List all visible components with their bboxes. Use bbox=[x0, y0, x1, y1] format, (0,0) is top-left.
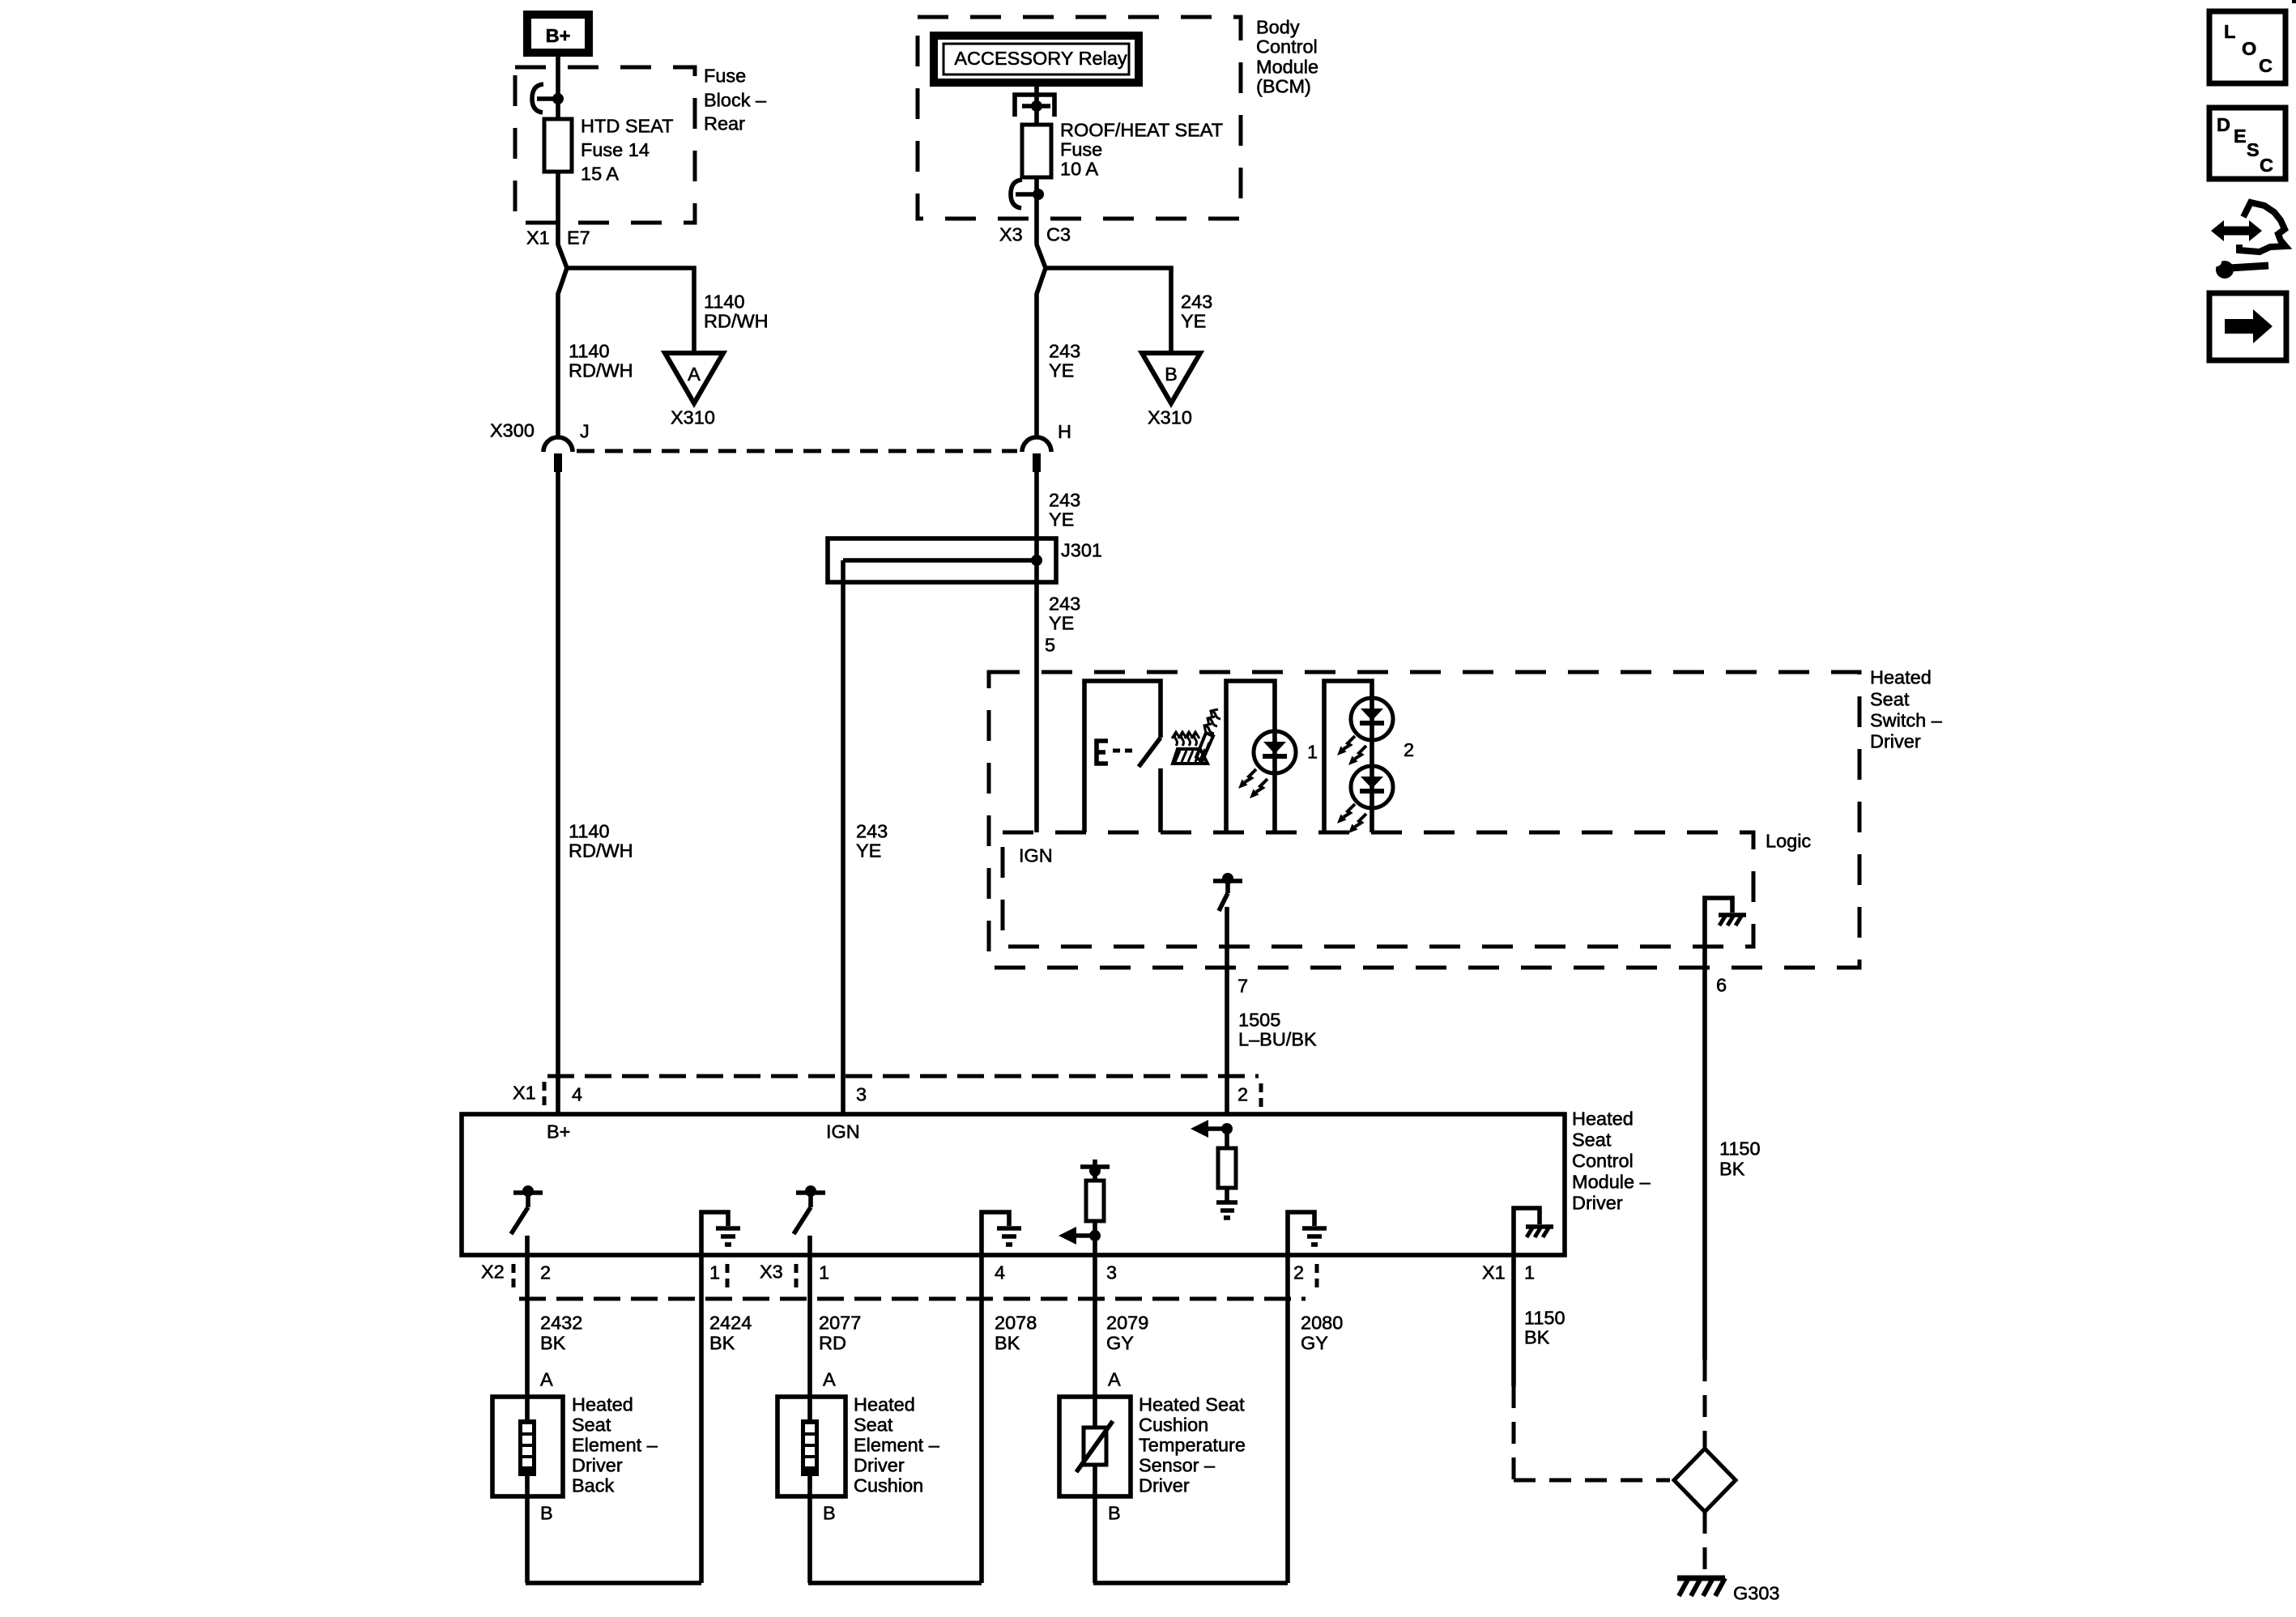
body control module BCM dashed box bbox=[918, 17, 1241, 219]
thermistor symbol bbox=[1076, 1421, 1113, 1472]
svg-text:GY: GY bbox=[1106, 1333, 1134, 1354]
label Heated Seat Control Module - Driver bbox=[1572, 1108, 1651, 1214]
off-page connector triangle B bbox=[1142, 353, 1200, 403]
svg-text:B: B bbox=[1165, 364, 1178, 385]
wire labels under module bbox=[540, 1308, 1565, 1354]
power symbol B+ bbox=[523, 11, 593, 57]
heated seat element driver cushion box bbox=[777, 1397, 846, 1496]
label 243 YE below H bbox=[1049, 490, 1080, 530]
svg-text:Heated: Heated bbox=[1870, 667, 1932, 688]
svg-text:BK: BK bbox=[709, 1333, 735, 1354]
svg-text:A: A bbox=[540, 1369, 553, 1390]
svg-text:2078: 2078 bbox=[995, 1313, 1037, 1334]
svg-text:YE: YE bbox=[856, 840, 881, 862]
svg-text:3: 3 bbox=[856, 1084, 867, 1105]
label 1150 BK right wire bbox=[1719, 1138, 1761, 1180]
module ground hook pin X2-1 bbox=[701, 1212, 740, 1255]
svg-text:A: A bbox=[688, 364, 701, 385]
module internal switch for seat cushion element bbox=[794, 1185, 825, 1234]
svg-text:J: J bbox=[580, 421, 590, 442]
heated seat switch driver dashed box bbox=[989, 672, 1859, 968]
LED 2 lower bbox=[1351, 766, 1393, 808]
icon forward arrow box bbox=[2209, 293, 2286, 360]
module ground hook pin X3-4 bbox=[982, 1212, 1021, 1255]
heating element symbol back bbox=[518, 1419, 536, 1476]
label Heated Seat Element - Driver Back bbox=[572, 1394, 658, 1496]
svg-text:X310: X310 bbox=[671, 407, 715, 428]
svg-text:Control: Control bbox=[1256, 36, 1318, 57]
svg-text:2: 2 bbox=[1293, 1262, 1304, 1283]
svg-text:Seat: Seat bbox=[1572, 1130, 1612, 1151]
svg-text:2079: 2079 bbox=[1106, 1313, 1148, 1334]
icon DESC box bbox=[2209, 108, 2285, 179]
wire loop cushion element to 2078 BK bbox=[808, 1255, 982, 1583]
dashed wire diamond to G303 bbox=[1703, 1512, 1707, 1574]
svg-text:B: B bbox=[540, 1503, 553, 1524]
svg-text:YE: YE bbox=[1049, 360, 1074, 381]
svg-text:Heated: Heated bbox=[1572, 1108, 1634, 1130]
svg-text:ROOF/HEAT SEAT: ROOF/HEAT SEAT bbox=[1060, 120, 1223, 141]
svg-text:Body: Body bbox=[1256, 17, 1300, 38]
svg-text:Module –: Module – bbox=[1572, 1172, 1651, 1193]
connector row X2 X3 X1 bottom of module bbox=[513, 1264, 1317, 1299]
fuse block rear dashed box bbox=[515, 67, 695, 223]
svg-text:YE: YE bbox=[1049, 509, 1074, 530]
logic output switch to pin 7 bbox=[1213, 873, 1242, 911]
svg-text:Element –: Element – bbox=[854, 1435, 940, 1456]
svg-text:Module: Module bbox=[1256, 57, 1318, 78]
page corner mark bbox=[2292, 0, 2296, 3]
svg-text:Seat: Seat bbox=[854, 1415, 893, 1436]
label ROOF/HEAT SEAT Fuse 10 A bbox=[1060, 120, 1223, 180]
svg-text:Back: Back bbox=[572, 1475, 614, 1496]
svg-text:4: 4 bbox=[572, 1084, 582, 1105]
svg-text:X1: X1 bbox=[526, 228, 550, 249]
svg-text:Heated Seat: Heated Seat bbox=[1139, 1394, 1245, 1415]
splice pack J301 bbox=[828, 538, 1056, 582]
wire 243 YE from J301 to module pin X1-3 bbox=[841, 560, 846, 1114]
svg-text:X3: X3 bbox=[999, 224, 1023, 245]
svg-text:2077: 2077 bbox=[819, 1313, 861, 1334]
wire 1140 RD/WH from B+ through fuse 14 down to module pin X1-4 bbox=[558, 57, 567, 1114]
icon LOC box bbox=[2209, 11, 2285, 83]
LED 1 bbox=[1254, 731, 1296, 773]
svg-text:E7: E7 bbox=[567, 228, 590, 249]
svg-text:Driver: Driver bbox=[1572, 1193, 1623, 1214]
svg-text:IGN: IGN bbox=[826, 1121, 860, 1143]
wire 2079 GY to cushion temperature sensor bbox=[1093, 1255, 1097, 1583]
svg-text:BK: BK bbox=[995, 1333, 1020, 1354]
svg-text:RD: RD bbox=[819, 1333, 846, 1354]
logic internal ground hook bbox=[1705, 898, 1732, 947]
wire branch tap to X310 A bbox=[566, 268, 694, 355]
svg-text:Fuse: Fuse bbox=[704, 66, 746, 87]
svg-text:YE: YE bbox=[1181, 311, 1206, 332]
dashed ground wire from X1-1 to splice diamond bbox=[1514, 1386, 1670, 1480]
label 243 YE mid IGN wire bbox=[856, 821, 888, 862]
label Fuse Block - Rear bbox=[704, 66, 767, 134]
wire 1505 L-BU/BK pin 7 to module pin X1-2 bbox=[1225, 907, 1229, 1114]
svg-text:BK: BK bbox=[1719, 1159, 1745, 1180]
connector label X3 C3 bbox=[999, 224, 1071, 245]
wire loop back element to 2424 BK bbox=[526, 1255, 701, 1583]
splice diamond bbox=[1674, 1449, 1736, 1512]
svg-text:Heated: Heated bbox=[854, 1394, 915, 1415]
svg-text:Element –: Element – bbox=[572, 1435, 658, 1456]
svg-text:243: 243 bbox=[1181, 291, 1212, 313]
svg-text:L: L bbox=[2224, 21, 2235, 42]
LED 2 branch bbox=[1324, 681, 1372, 832]
label 243 YE at branch bbox=[1181, 291, 1212, 332]
svg-text:C: C bbox=[2260, 155, 2273, 176]
connector X300 cavity H symbol bbox=[1022, 437, 1051, 472]
svg-text:YE: YE bbox=[1049, 613, 1074, 634]
svg-text:A: A bbox=[1108, 1369, 1121, 1390]
svg-text:Driver: Driver bbox=[1870, 731, 1921, 752]
svg-text:GY: GY bbox=[1301, 1333, 1328, 1354]
svg-text:1505: 1505 bbox=[1238, 1010, 1280, 1031]
svg-text:X2: X2 bbox=[481, 1262, 505, 1283]
wire loop sensor to 2080 GY bbox=[1093, 1255, 1288, 1583]
svg-text:15 A: 15 A bbox=[581, 164, 619, 185]
svg-text:6: 6 bbox=[1716, 975, 1727, 996]
svg-text:G303: G303 bbox=[1733, 1583, 1780, 1604]
dashed ground wire from pin 6 down bbox=[1703, 1360, 1707, 1448]
svg-text:RD/WH: RD/WH bbox=[569, 840, 633, 862]
svg-text:B: B bbox=[1108, 1503, 1121, 1524]
label 1505 L-BU/BK bbox=[1238, 1010, 1317, 1050]
svg-text:243: 243 bbox=[1049, 594, 1080, 615]
svg-text:B+: B+ bbox=[546, 25, 571, 46]
svg-text:1150: 1150 bbox=[1719, 1138, 1761, 1160]
dashed connector line X300 J to H bbox=[577, 449, 1017, 453]
svg-text:X3: X3 bbox=[760, 1262, 783, 1283]
svg-text:Fuse 14: Fuse 14 bbox=[581, 139, 650, 160]
svg-text:ACCESSORY Relay: ACCESSORY Relay bbox=[954, 48, 1127, 69]
svg-text:10 A: 10 A bbox=[1060, 159, 1098, 180]
svg-text:Driver: Driver bbox=[1139, 1475, 1190, 1496]
connector row X1 top of module bbox=[544, 1076, 1261, 1109]
module ground hook pin X3-2 bbox=[1288, 1212, 1327, 1255]
svg-text:Seat: Seat bbox=[572, 1415, 611, 1436]
svg-text:2424: 2424 bbox=[709, 1313, 752, 1334]
label Body Control Module (BCM) bbox=[1256, 17, 1318, 97]
svg-text:1: 1 bbox=[1524, 1262, 1535, 1283]
svg-text:1140: 1140 bbox=[569, 341, 610, 362]
label 1140 RD/WH upper left wire bbox=[569, 341, 633, 381]
svg-text:RD/WH: RD/WH bbox=[704, 311, 769, 332]
svg-text:X1: X1 bbox=[513, 1083, 536, 1104]
svg-text:1150: 1150 bbox=[1524, 1308, 1565, 1329]
LED 2 upper light arrows bbox=[1337, 736, 1366, 765]
svg-text:B+: B+ bbox=[547, 1121, 570, 1143]
LED 1 light arrows bbox=[1238, 769, 1267, 798]
svg-text:Rear: Rear bbox=[704, 113, 745, 134]
wire branch tap to X310 B bbox=[1045, 268, 1171, 355]
wire 2432 BK to seat back element bbox=[525, 1236, 530, 1583]
svg-text:O: O bbox=[2242, 38, 2256, 59]
svg-text:A: A bbox=[823, 1369, 836, 1390]
wire 1150 BK from pin 6 down bbox=[1702, 947, 1707, 1360]
heated seat control module box bbox=[462, 1114, 1565, 1255]
svg-text:243: 243 bbox=[1049, 490, 1080, 511]
svg-text:4: 4 bbox=[995, 1262, 1005, 1283]
svg-text:H: H bbox=[1058, 421, 1071, 442]
svg-text:243: 243 bbox=[1049, 341, 1080, 362]
svg-text:1140: 1140 bbox=[704, 291, 745, 313]
svg-text:X310: X310 bbox=[1148, 407, 1192, 428]
svg-text:Driver: Driver bbox=[572, 1455, 623, 1476]
module internal switch for seat back element bbox=[511, 1185, 543, 1234]
svg-text:2432: 2432 bbox=[540, 1313, 582, 1334]
logic dashed box bbox=[1003, 832, 1753, 947]
svg-text:Switch –: Switch – bbox=[1870, 710, 1943, 731]
svg-text:X1: X1 bbox=[1482, 1262, 1506, 1283]
wire 243 YE from relay through fuse down to connector C3 bbox=[1037, 87, 1046, 832]
svg-text:X300: X300 bbox=[490, 420, 535, 441]
relay output terminal symbol bbox=[1015, 95, 1054, 117]
svg-text:1: 1 bbox=[709, 1262, 720, 1283]
svg-text:Control: Control bbox=[1572, 1151, 1634, 1172]
ground G303 symbol bbox=[1677, 1578, 1725, 1596]
svg-text:2: 2 bbox=[1404, 739, 1414, 760]
svg-text:E: E bbox=[2234, 126, 2247, 147]
svg-text:Logic: Logic bbox=[1766, 831, 1811, 852]
heating element symbol cushion bbox=[801, 1419, 819, 1476]
svg-text:(BCM): (BCM) bbox=[1256, 76, 1311, 97]
heated seat icon bbox=[1172, 709, 1220, 764]
svg-text:HTD SEAT: HTD SEAT bbox=[581, 116, 673, 137]
svg-text:Cushion: Cushion bbox=[1139, 1415, 1208, 1436]
label 243 YE above H bbox=[1049, 341, 1080, 381]
svg-text:B: B bbox=[823, 1503, 836, 1524]
breaker hook contact at fuse 14 bbox=[532, 84, 564, 113]
svg-text:S: S bbox=[2247, 139, 2260, 160]
svg-text:3: 3 bbox=[1106, 1262, 1117, 1283]
label Heated Seat Cushion Temperature Sensor - Driver bbox=[1139, 1394, 1246, 1496]
svg-text:1: 1 bbox=[819, 1262, 829, 1283]
E contact glyph with dashes bbox=[1097, 741, 1137, 764]
svg-text:7: 7 bbox=[1237, 976, 1248, 997]
connector X300 cavity J symbol bbox=[543, 437, 573, 472]
svg-text:243: 243 bbox=[856, 821, 888, 842]
connector label X1 E7 bbox=[526, 228, 590, 249]
svg-text:2080: 2080 bbox=[1301, 1313, 1343, 1334]
label HTD SEAT Fuse 14 15 A bbox=[581, 116, 673, 185]
switch leg with mode contact bbox=[1084, 681, 1161, 832]
breaker hook contact below fuse 10A bbox=[1011, 180, 1044, 208]
svg-text:1140: 1140 bbox=[569, 821, 610, 842]
LED 1 branch bbox=[1226, 681, 1275, 832]
wire 2077 RD to seat cushion element bbox=[807, 1236, 812, 1583]
off-page connector triangle A bbox=[665, 353, 723, 403]
svg-text:RD/WH: RD/WH bbox=[569, 360, 633, 381]
svg-text:IGN: IGN bbox=[1019, 845, 1053, 866]
LED 2 upper bbox=[1351, 698, 1393, 740]
svg-text:BK: BK bbox=[540, 1333, 566, 1354]
label 1140 RD/WH mid left wire bbox=[569, 821, 633, 862]
svg-text:2: 2 bbox=[540, 1262, 551, 1283]
svg-text:Block –: Block – bbox=[704, 90, 767, 111]
svg-text:2: 2 bbox=[1237, 1084, 1248, 1105]
svg-text:BK: BK bbox=[1524, 1327, 1550, 1348]
svg-text:J301: J301 bbox=[1061, 540, 1102, 561]
svg-text:Temperature: Temperature bbox=[1139, 1435, 1246, 1456]
label Heated Seat Switch - Driver bbox=[1870, 667, 1943, 752]
svg-text:Cushion: Cushion bbox=[854, 1475, 923, 1496]
svg-text:Sensor –: Sensor – bbox=[1139, 1455, 1216, 1476]
label 243 YE below J301 bbox=[1049, 594, 1080, 634]
labels bottom connector pins bbox=[481, 1262, 1535, 1283]
svg-text:C: C bbox=[2259, 55, 2273, 76]
svg-text:Seat: Seat bbox=[1870, 689, 1910, 710]
heated seat cushion temperature sensor box bbox=[1059, 1397, 1131, 1496]
heated seat element driver back box bbox=[492, 1397, 563, 1496]
fuse F14 HTD SEAT 15A bbox=[544, 119, 572, 172]
svg-text:Fuse: Fuse bbox=[1060, 139, 1102, 160]
labels X1 4 3 2 top connector bbox=[513, 1083, 1248, 1105]
svg-text:Heated: Heated bbox=[572, 1394, 633, 1415]
icon part locator arrow outline wrench bbox=[2207, 202, 2285, 279]
label 1140 RD/WH at branch bbox=[704, 291, 769, 332]
svg-text:D: D bbox=[2217, 114, 2230, 135]
fuse ROOF/HEAT SEAT 10A bbox=[1022, 125, 1051, 177]
module pin 2 sense resistor with arrow and ground bbox=[1191, 1120, 1237, 1218]
wire 1150 BK from module pin X1-1 bbox=[1511, 1255, 1516, 1386]
svg-text:C3: C3 bbox=[1046, 224, 1071, 245]
label Heated Seat Element - Driver Cushion bbox=[854, 1394, 940, 1496]
chassis ground symbol in logic bbox=[1719, 915, 1746, 926]
svg-text:L–BU/BK: L–BU/BK bbox=[1238, 1029, 1317, 1050]
accessory relay box bbox=[930, 32, 1143, 87]
LED 2 lower light arrows bbox=[1337, 804, 1366, 833]
svg-text:Driver: Driver bbox=[854, 1455, 905, 1476]
module chassis ground hook pin X1-1 bbox=[1514, 1208, 1553, 1255]
svg-text:1: 1 bbox=[1307, 742, 1318, 763]
svg-text:5: 5 bbox=[1045, 635, 1055, 656]
module temperature sense resistor with arrow pin X3-3 bbox=[1059, 1160, 1110, 1255]
